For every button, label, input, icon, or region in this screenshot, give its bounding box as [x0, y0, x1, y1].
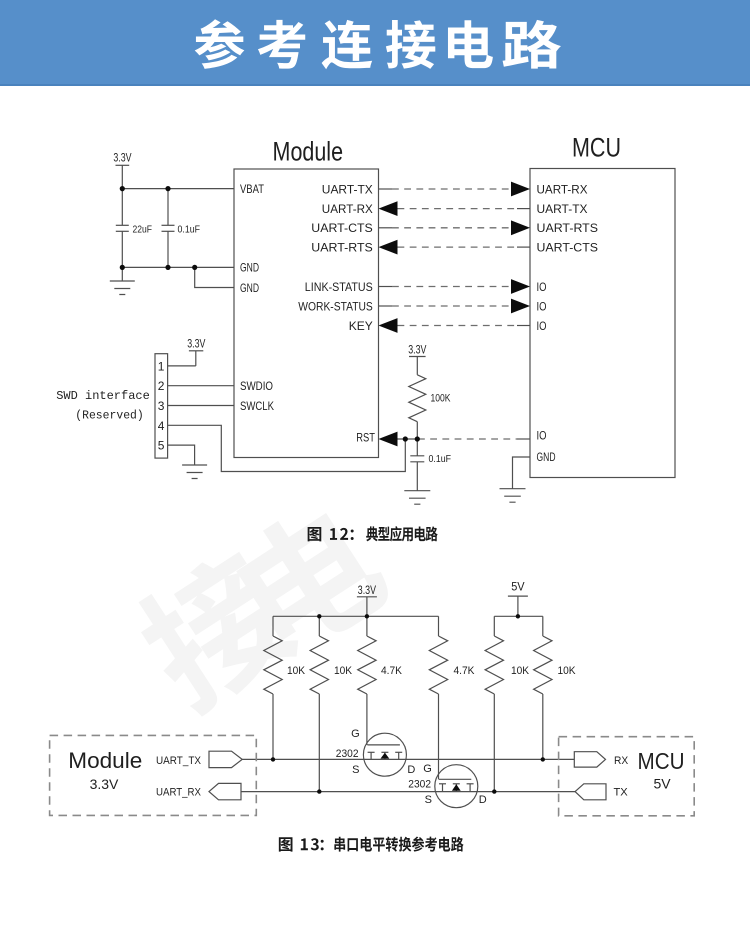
svg-text:10K: 10K — [334, 665, 353, 677]
svg-text:4.7K: 4.7K — [454, 665, 476, 677]
svg-text:3.3V: 3.3V — [358, 585, 376, 597]
svg-text:4.7K: 4.7K — [381, 665, 403, 677]
svg-text:GND: GND — [240, 281, 259, 295]
svg-text:3.3V: 3.3V — [90, 776, 119, 792]
svg-text:2302: 2302 — [336, 748, 359, 760]
svg-text:0.1uF: 0.1uF — [429, 453, 452, 465]
svg-text:RST: RST — [356, 431, 375, 445]
svg-text:UART_RX: UART_RX — [156, 787, 202, 799]
svg-text:UART-TX: UART-TX — [537, 202, 588, 216]
svg-text:3.3V: 3.3V — [113, 152, 131, 164]
svg-text:10K: 10K — [287, 665, 306, 677]
svg-text:22uF: 22uF — [133, 223, 153, 235]
svg-text:UART-RX: UART-RX — [322, 202, 373, 216]
svg-text:UART-RTS: UART-RTS — [311, 240, 373, 254]
svg-text:UART-RTS: UART-RTS — [537, 221, 599, 235]
svg-text:5: 5 — [158, 439, 165, 453]
svg-text:WORK-STATUS: WORK-STATUS — [298, 299, 373, 313]
svg-text:IO: IO — [537, 280, 547, 294]
svg-text:4: 4 — [158, 419, 165, 433]
svg-text:Module: Module — [68, 748, 142, 773]
svg-text:IO: IO — [537, 429, 547, 443]
svg-text:MCU: MCU — [638, 748, 685, 774]
svg-text:5V: 5V — [511, 582, 525, 594]
svg-text:SWCLK: SWCLK — [240, 399, 274, 413]
svg-text:GND: GND — [240, 260, 259, 274]
svg-text:VBAT: VBAT — [240, 182, 265, 196]
svg-text:3.3V: 3.3V — [408, 345, 426, 357]
svg-text:S: S — [352, 764, 359, 776]
svg-text:GND: GND — [537, 450, 556, 464]
svg-text:SWDIO: SWDIO — [240, 379, 273, 393]
svg-text:UART-TX: UART-TX — [322, 182, 373, 196]
svg-text:SWD interface: SWD interface — [56, 389, 150, 403]
svg-text:UART-CTS: UART-CTS — [537, 240, 599, 254]
svg-text:S: S — [425, 794, 432, 806]
svg-text:KEY: KEY — [349, 319, 373, 333]
svg-text:10K: 10K — [511, 665, 530, 677]
svg-text:1: 1 — [158, 359, 165, 373]
svg-text:RX: RX — [614, 755, 629, 767]
svg-text:3: 3 — [158, 399, 165, 413]
svg-text:100K: 100K — [431, 393, 452, 405]
svg-text:5V: 5V — [653, 775, 671, 791]
svg-text:TX: TX — [614, 786, 629, 798]
svg-text:MCU: MCU — [572, 133, 621, 163]
svg-text:(Reserved): (Reserved) — [75, 409, 144, 423]
svg-text:D: D — [407, 764, 415, 776]
svg-text:10K: 10K — [558, 665, 577, 677]
svg-text:LINK-STATUS: LINK-STATUS — [305, 280, 373, 294]
svg-text:D: D — [479, 794, 487, 806]
svg-text:G: G — [351, 728, 360, 740]
svg-text:G: G — [423, 763, 432, 775]
svg-text:Module: Module — [273, 137, 344, 167]
svg-text:UART-RX: UART-RX — [537, 182, 588, 196]
svg-text:2: 2 — [158, 379, 165, 393]
svg-text:IO: IO — [537, 319, 547, 333]
svg-text:2302: 2302 — [408, 779, 431, 791]
svg-text:UART_TX: UART_TX — [156, 755, 202, 767]
svg-text:UART-CTS: UART-CTS — [311, 221, 373, 235]
svg-text:IO: IO — [537, 299, 547, 313]
svg-text:3.3V: 3.3V — [187, 338, 205, 350]
svg-text:0.1uF: 0.1uF — [178, 223, 201, 235]
